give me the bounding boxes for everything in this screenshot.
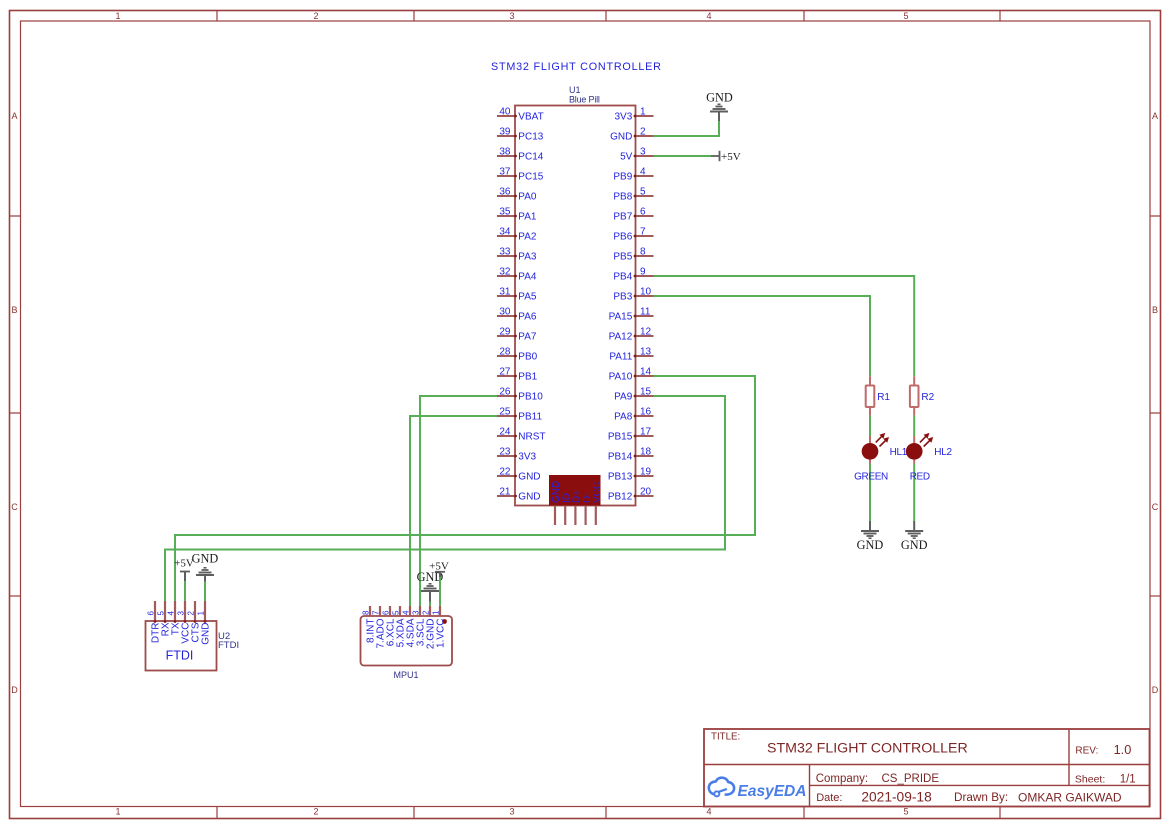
U1 pin 37 PC15 <box>497 167 544 183</box>
svg-text:11: 11 <box>640 307 651 318</box>
title block REV <box>1075 742 1131 757</box>
U1 pin 22 GND <box>497 467 541 483</box>
svg-text:4: 4 <box>402 610 411 615</box>
svg-text:STM32 FLIGHT CONTROLLER: STM32 FLIGHT CONTROLLER <box>491 61 662 73</box>
U1 pin 32 PA4 <box>497 267 537 283</box>
svg-text:31: 31 <box>499 287 511 298</box>
svg-text:PB3: PB3 <box>613 292 632 303</box>
svg-text:8: 8 <box>640 247 646 258</box>
svg-text:3: 3 <box>509 11 514 21</box>
MPU1 pin 2 GND <box>422 606 437 649</box>
svg-text:GREEN: GREEN <box>854 471 888 482</box>
ground GND (below HL2) <box>901 521 928 552</box>
svg-text:5: 5 <box>640 187 646 198</box>
U1 pin 5 PB8 <box>613 187 653 203</box>
svg-text:PA0: PA0 <box>518 192 537 203</box>
svg-text:29: 29 <box>499 327 511 338</box>
svg-text:2: 2 <box>313 11 318 21</box>
LED HL1 (GREEN) <box>854 415 908 521</box>
svg-text:C: C <box>11 502 18 512</box>
wire U1 GND pin2 to ground <box>654 121 720 137</box>
svg-text:16: 16 <box>640 407 652 418</box>
svg-text:2: 2 <box>313 807 318 817</box>
svg-text:38: 38 <box>499 147 511 158</box>
svg-text:HL2: HL2 <box>934 447 952 458</box>
U1 pin 12 PA12 <box>609 327 654 343</box>
component U1 Blue Pill body <box>515 106 636 506</box>
title block Date row <box>816 790 1122 805</box>
svg-text:18: 18 <box>640 447 652 458</box>
svg-text:R1: R1 <box>877 392 890 403</box>
svg-text:7: 7 <box>640 227 646 238</box>
svg-text:Date:: Date: <box>816 792 842 804</box>
svg-text:PA8: PA8 <box>614 412 633 423</box>
title block TITLE text <box>711 732 968 757</box>
svg-text:FTDI: FTDI <box>166 649 194 663</box>
svg-text:1: 1 <box>115 807 120 817</box>
svg-text:NRST: NRST <box>518 432 545 443</box>
svg-text:PA6: PA6 <box>518 312 537 323</box>
svg-text:GND: GND <box>518 472 540 483</box>
svg-text:GND: GND <box>706 91 733 105</box>
power +5V (at U1 pin3) <box>711 151 741 163</box>
svg-text:35: 35 <box>499 207 511 218</box>
svg-text:OMKAR GAIKWAD: OMKAR GAIKWAD <box>1018 791 1122 805</box>
title block <box>704 729 1150 807</box>
svg-text:PB0: PB0 <box>518 352 537 363</box>
svg-text:PB6: PB6 <box>613 232 632 243</box>
svg-text:3: 3 <box>640 147 646 158</box>
svg-text:PA12: PA12 <box>609 332 633 343</box>
svg-text:PB9: PB9 <box>613 172 632 183</box>
wire U1 PB11 pin25 to MPU1 SDA <box>410 416 497 606</box>
svg-text:D: D <box>11 685 18 695</box>
svg-text:PA9: PA9 <box>614 392 633 403</box>
U1 pin 36 PA0 <box>497 187 537 203</box>
ground GND (top, at U1 pin2) <box>706 91 733 122</box>
svg-text:PC14: PC14 <box>518 152 543 163</box>
svg-text:26: 26 <box>499 387 511 398</box>
svg-text:GND: GND <box>610 132 632 143</box>
U1 pin 8 PB5 <box>613 247 653 263</box>
wire U1 PA9 pin15 to U2 RX <box>165 396 725 601</box>
wire U1 5V pin3 to +5V <box>654 155 712 157</box>
svg-text:21: 21 <box>499 487 511 498</box>
svg-text:34: 34 <box>499 227 511 238</box>
svg-text:EasyEDA: EasyEDA <box>738 783 807 800</box>
U1 pin 27 PB1 <box>497 367 538 383</box>
svg-text:PC13: PC13 <box>518 132 543 143</box>
MPU1 pin 1 VCC <box>432 606 447 648</box>
svg-text:CS_PRIDE: CS_PRIDE <box>882 773 940 785</box>
U1 pin 35 PA1 <box>497 207 537 223</box>
svg-text:25: 25 <box>499 407 511 418</box>
svg-text:RED: RED <box>910 471 930 482</box>
svg-text:+5V: +5V <box>721 151 741 163</box>
U2 pin 2 CTS <box>187 601 202 643</box>
U2 pin 6 DTR <box>147 601 162 643</box>
svg-text:R2: R2 <box>921 392 934 403</box>
U1 pin 11 PA15 <box>609 307 654 323</box>
svg-text:19: 19 <box>640 467 652 478</box>
svg-text:GND: GND <box>857 538 884 552</box>
power +5V (at U2 VCC) <box>174 557 194 601</box>
svg-text:PB7: PB7 <box>613 212 632 223</box>
svg-text:5: 5 <box>903 11 908 21</box>
svg-text:PB8: PB8 <box>613 192 632 203</box>
svg-text:PB11: PB11 <box>518 412 542 423</box>
U1 pin 15 PA9 <box>614 387 653 403</box>
svg-text:1: 1 <box>197 611 206 616</box>
U1 pin 28 PB0 <box>497 347 538 363</box>
U1 pin 3 5V <box>620 147 653 163</box>
U1 pin 16 PA8 <box>614 407 653 423</box>
svg-text:4: 4 <box>640 167 646 178</box>
svg-text:4: 4 <box>706 11 711 21</box>
svg-text:1: 1 <box>432 610 441 615</box>
U2 pin 3 VCC <box>177 601 192 644</box>
svg-text:1/1: 1/1 <box>1120 774 1136 786</box>
U1 pin 4 PB9 <box>613 167 653 183</box>
title block Sheet <box>1075 774 1136 786</box>
svg-text:36: 36 <box>499 187 511 198</box>
svg-text:3: 3 <box>509 807 514 817</box>
resistor R1 <box>866 376 891 415</box>
svg-text:B: B <box>1152 305 1158 315</box>
svg-text:28: 28 <box>499 347 511 358</box>
U1 pin 13 PA11 <box>609 347 653 363</box>
svg-text:2: 2 <box>422 610 431 615</box>
ground GND (at MPU1 pin2) <box>417 570 444 606</box>
wire U1 PB10 pin26 to MPU1 SCL <box>420 396 497 606</box>
MPU1 pin 6 XCL <box>382 606 397 646</box>
svg-text:32: 32 <box>499 267 511 278</box>
svg-text:14: 14 <box>640 367 652 378</box>
svg-text:GND: GND <box>201 623 212 645</box>
svg-text:A: A <box>11 111 17 121</box>
svg-text:PA4: PA4 <box>518 272 537 283</box>
svg-text:3: 3 <box>177 611 186 616</box>
svg-text:15: 15 <box>640 387 652 398</box>
svg-text:FTDI: FTDI <box>218 640 239 651</box>
U1 pin 40 VBAT <box>497 107 544 123</box>
svg-text:PC15: PC15 <box>518 172 543 183</box>
svg-text:20: 20 <box>640 487 652 498</box>
svg-text:PB14: PB14 <box>608 452 633 463</box>
U1 pin 38 PC14 <box>497 147 544 163</box>
svg-text:MPU1: MPU1 <box>393 670 418 680</box>
svg-text:2021-09-18: 2021-09-18 <box>861 790 932 805</box>
U1 USB connector block <box>549 475 603 525</box>
U1 pin 26 PB10 <box>497 387 543 403</box>
resistor R2 <box>910 376 935 415</box>
U1 pin 10 PB3 <box>613 287 653 303</box>
svg-text:37: 37 <box>499 167 511 178</box>
svg-text:VCC: VCC <box>592 482 603 503</box>
U1 pin 25 PB11 <box>497 407 542 423</box>
svg-text:Company:: Company: <box>816 773 868 785</box>
U1 pin 2 GND <box>610 127 653 143</box>
svg-text:4: 4 <box>167 611 176 616</box>
MPU1 designator label <box>393 670 418 680</box>
svg-text:Drawn By:: Drawn By: <box>954 791 1008 804</box>
U1 pin 23 3V3 <box>497 447 537 463</box>
svg-text:REV:: REV: <box>1075 746 1098 757</box>
U2 pin 5 RX <box>157 601 172 636</box>
U2 designator labels <box>218 631 239 651</box>
EasyEDA logo <box>709 778 807 800</box>
wire U1 PB3 pin10 to R1 <box>654 296 871 376</box>
svg-text:B: B <box>11 305 17 315</box>
svg-text:40: 40 <box>499 107 511 118</box>
power +5V (at MPU1 pin1) <box>429 561 449 607</box>
module MPU1 body <box>361 616 453 666</box>
U1 pin 31 PA5 <box>497 287 537 303</box>
svg-text:GND: GND <box>901 538 928 552</box>
svg-text:4: 4 <box>706 807 711 817</box>
wire U1 PA10 pin14 to U2 TX <box>175 376 755 601</box>
svg-text:10: 10 <box>640 287 652 298</box>
U1 pin 7 PB6 <box>613 227 653 243</box>
svg-text:GND: GND <box>518 492 540 503</box>
svg-text:PA1: PA1 <box>518 212 537 223</box>
svg-text:12: 12 <box>640 327 652 338</box>
svg-text:+5V: +5V <box>429 561 449 573</box>
connector U2 FTDI body <box>146 621 217 671</box>
svg-text:5V: 5V <box>620 152 633 163</box>
svg-text:PA5: PA5 <box>518 292 537 303</box>
svg-text:PB15: PB15 <box>608 432 633 443</box>
svg-text:1: 1 <box>640 107 646 118</box>
svg-text:HL1: HL1 <box>890 447 908 458</box>
U2 pin 4 TX <box>167 601 182 635</box>
svg-text:GND: GND <box>192 552 219 566</box>
MPU1 pin 7 ADO <box>372 606 387 649</box>
svg-text:24: 24 <box>499 427 511 438</box>
svg-text:U1: U1 <box>569 85 581 95</box>
svg-text:23: 23 <box>499 447 511 458</box>
U1 pin 18 PB14 <box>608 447 654 463</box>
svg-text:5: 5 <box>903 807 908 817</box>
svg-text:C: C <box>1152 502 1159 512</box>
svg-text:PB13: PB13 <box>608 472 633 483</box>
svg-text:STM32 FLIGHT CONTROLLER: STM32 FLIGHT CONTROLLER <box>767 740 968 756</box>
svg-text:1.0: 1.0 <box>1114 742 1132 757</box>
ground GND (below HL1) <box>857 521 884 552</box>
svg-text:TITLE:: TITLE: <box>711 732 740 743</box>
svg-text:30: 30 <box>499 307 511 318</box>
svg-text:6: 6 <box>382 610 391 615</box>
U1 pin 30 PA6 <box>497 307 537 323</box>
svg-text:17: 17 <box>640 427 652 438</box>
svg-text:8: 8 <box>362 610 371 615</box>
U1 designator labels <box>569 85 600 105</box>
svg-text:3: 3 <box>412 610 421 615</box>
U1 pin 34 PA2 <box>497 227 537 243</box>
U1 pin 6 PB7 <box>613 207 653 223</box>
ground GND (at U2 pin1) <box>192 552 219 601</box>
svg-text:PA3: PA3 <box>518 252 537 263</box>
U1 pin 14 PA10 <box>609 367 654 383</box>
svg-text:D: D <box>1152 685 1159 695</box>
svg-text:PA2: PA2 <box>518 232 537 243</box>
U1 pin 24 NRST <box>497 427 546 443</box>
svg-text:PB10: PB10 <box>518 392 543 403</box>
svg-text:1: 1 <box>115 11 120 21</box>
svg-text:PB5: PB5 <box>613 252 632 263</box>
U1 pin 33 PA3 <box>497 247 537 263</box>
svg-text:5: 5 <box>392 610 401 615</box>
svg-text:3V3: 3V3 <box>518 452 536 463</box>
svg-text:PB1: PB1 <box>518 372 537 383</box>
U1 pin 1 3V3 <box>615 107 654 123</box>
svg-text:PA10: PA10 <box>609 372 633 383</box>
MPU1 pin 8 INT <box>362 606 377 643</box>
svg-text:PA15: PA15 <box>609 312 633 323</box>
title block Company row <box>816 773 940 785</box>
svg-text:Sheet:: Sheet: <box>1075 774 1105 786</box>
MPU1 pin 5 XDA <box>392 606 407 647</box>
U1 pin 17 PB15 <box>608 427 654 443</box>
U1 pin 19 PB13 <box>608 467 654 483</box>
U1 pin 29 PA7 <box>497 327 537 343</box>
svg-text:33: 33 <box>499 247 511 258</box>
svg-text:PB12: PB12 <box>608 492 633 503</box>
U1 pin 21 GND <box>497 487 541 503</box>
svg-text:2: 2 <box>187 611 196 616</box>
sheet title STM32 FLIGHT CONTROLLER <box>491 61 662 73</box>
svg-text:PA11: PA11 <box>609 352 632 363</box>
MPU1 pin 4 SDA <box>402 606 417 647</box>
svg-text:7: 7 <box>372 610 381 615</box>
U1 pin 9 PB4 <box>613 267 653 283</box>
wire U1 PB4 pin9 to R2 <box>654 276 915 376</box>
U1 pin 20 PB12 <box>608 487 654 503</box>
svg-text:22: 22 <box>499 467 511 478</box>
svg-text:PB4: PB4 <box>613 272 632 283</box>
svg-text:VBAT: VBAT <box>518 112 543 123</box>
svg-text:5: 5 <box>157 611 166 616</box>
svg-text:PA7: PA7 <box>518 332 537 343</box>
svg-text:9: 9 <box>640 267 646 278</box>
svg-text:3V3: 3V3 <box>615 112 633 123</box>
svg-text:2: 2 <box>640 127 646 138</box>
svg-text:39: 39 <box>499 127 511 138</box>
svg-text:6: 6 <box>147 611 156 616</box>
svg-text:6: 6 <box>640 207 646 218</box>
MPU1 pin 3 SCL <box>412 606 427 646</box>
svg-text:27: 27 <box>499 367 511 378</box>
LED HL2 (RED) <box>906 415 953 521</box>
svg-text:A: A <box>1152 111 1158 121</box>
svg-text:13: 13 <box>640 347 652 358</box>
U2 pin 1 GND <box>197 601 212 645</box>
svg-text:1.VCC: 1.VCC <box>436 619 447 648</box>
U1 pin 39 PC13 <box>497 127 544 143</box>
svg-text:Blue Pill: Blue Pill <box>569 95 600 105</box>
